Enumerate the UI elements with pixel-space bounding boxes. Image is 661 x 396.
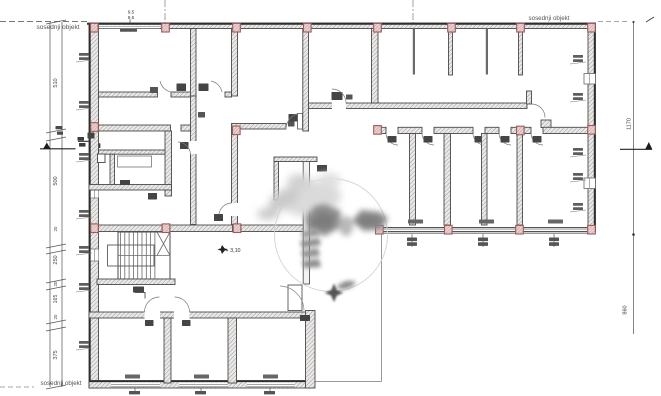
row2 wall (y125) left [99, 125, 171, 131]
door leaf corridor top [332, 92, 343, 100]
svg-text:9,5: 9,5 [128, 15, 135, 20]
section arrow right [620, 142, 652, 149]
dimension line left inner [61, 22, 63, 387]
partition x447 [444, 134, 451, 226]
svg-text:sosednji objekt: sosednji objekt [37, 24, 80, 31]
left wall tick text y287 [76, 283, 92, 292]
label corridor mid [346, 95, 353, 100]
corridor east wall upper [232, 29, 238, 97]
east wall lower-left wing lower [306, 311, 316, 389]
balcony door leaf [288, 285, 302, 311]
wall x375 upper [372, 29, 379, 104]
dashed line top-right [598, 21, 630, 23]
door arc bath [178, 142, 191, 154]
right-wing bottom facade wall [376, 228, 595, 234]
svg-text:860: 860 [623, 305, 629, 314]
svg-text:20: 20 [53, 281, 58, 286]
left-wing bottom wall [89, 381, 311, 389]
right wall tick text y208 [570, 203, 586, 212]
partition stub x450 [449, 29, 453, 76]
stair treads [121, 232, 155, 279]
dim text 40 [56, 126, 64, 135]
small label left y160 [120, 180, 130, 185]
facade label Np right 1 [408, 220, 423, 224]
right wall tick text y152 [570, 148, 586, 157]
svg-text:sosednji objekt: sosednji objekt [529, 15, 570, 22]
door arc room1 [160, 81, 171, 92]
svg-text:510: 510 [53, 78, 59, 87]
door leaf vestibule [199, 84, 209, 92]
level label +3,10 [217, 245, 240, 254]
svg-text:375: 375 [53, 350, 59, 359]
left wall tick text y215 [76, 210, 92, 219]
window bottom wall 1 [111, 383, 160, 387]
column R2-4 [517, 126, 525, 135]
partition x484 [482, 134, 488, 226]
partition stub x520 [519, 29, 523, 76]
section mark left [40, 137, 100, 149]
wc fixture [98, 154, 106, 163]
watermark blurred logo [257, 173, 388, 302]
column R2-1 [91, 123, 99, 132]
column R1-4 [304, 23, 312, 32]
left exterior wall [89, 23, 99, 388]
balcony door arc [280, 286, 304, 311]
window band top wall [99, 25, 160, 28]
svg-text:500: 500 [53, 176, 59, 185]
corridor top wall y103 [309, 103, 528, 109]
column R2-3 [374, 126, 382, 135]
right exterior wall [588, 23, 596, 232]
window bottom wall 2 [179, 383, 228, 387]
facade tick text below 3 [549, 234, 559, 247]
left wall tick text y250 [76, 246, 92, 255]
column R3-2 [162, 224, 170, 233]
window right wall 1 [584, 74, 596, 85]
dashed line bottom-left [0, 386, 34, 388]
left wall tick text y160 [76, 153, 92, 162]
door arc y312 b [175, 297, 190, 312]
dimension line right [632, 21, 635, 334]
svg-text:+ 3,10: + 3,10 [225, 248, 240, 254]
svg-text:9,5: 9,5 [128, 10, 135, 15]
column R3-5 [445, 225, 453, 234]
top wall dark face line [87, 23, 596, 25]
left wall dark face line [89, 23, 91, 388]
door label corridor y112 [198, 112, 205, 118]
stair door mark [135, 293, 145, 299]
east wall lower-left wing upper [303, 162, 309, 285]
duct wall x276 [274, 162, 279, 201]
partition x232 lower [228, 318, 237, 383]
bath divider wall y150 [99, 150, 166, 154]
door arc vestibule [211, 81, 222, 92]
window label Np=1.00 top [120, 29, 137, 32]
right-wing corridor south wall [381, 127, 589, 133]
row3 wall seg2 [170, 225, 233, 232]
row3 wall seg1 [99, 225, 163, 232]
stair landing rect [108, 245, 155, 266]
left wall tick text y345 [76, 341, 92, 350]
door arc corridor east [219, 203, 232, 214]
partition stub x414 [413, 29, 415, 75]
stair outer box [118, 232, 170, 279]
stair mid line [118, 255, 170, 257]
column R2-2 [233, 126, 241, 135]
partition stub x487 [486, 29, 488, 75]
bath east wall [165, 131, 172, 196]
column R3-3 [233, 224, 241, 233]
right wall tick text y98 [570, 93, 586, 102]
facade tick below bottom 3 [264, 388, 275, 394]
bathtub [118, 156, 152, 167]
right wall tick text y60 [570, 55, 586, 64]
door text room y196 [148, 193, 157, 200]
corridor west wall upper [191, 29, 197, 97]
column R1-8 [588, 23, 596, 32]
bath divider vert [110, 154, 115, 189]
duct wall y157 [274, 157, 317, 162]
stair label [133, 287, 144, 293]
terrace outline [306, 227, 382, 382]
door label room1 a [150, 87, 158, 93]
column R3-4 [376, 225, 384, 234]
facade label Np bottom 2 [194, 375, 209, 379]
column R1-6 [448, 23, 456, 32]
stair diagonal [157, 232, 170, 256]
door gap corridor top [332, 103, 346, 110]
column R1-1 [91, 23, 99, 32]
right wall tick text y178 [570, 173, 586, 182]
door arc y312 a [145, 297, 160, 312]
right wall dark face line [594, 23, 596, 232]
column R1-2 [162, 23, 170, 32]
row2 wall seg to corridor [181, 125, 191, 131]
door leaf bath [180, 142, 189, 149]
dimension ticks left [46, 20, 66, 389]
svg-text:20: 20 [53, 226, 58, 231]
wall room1 bottom (y92-97) seg A [99, 92, 158, 97]
column R3-6 [516, 225, 524, 234]
facade tick text below 1 [407, 234, 417, 247]
column R1-5 [374, 23, 382, 32]
wall y185 [89, 185, 172, 191]
left wall tick text y105 [76, 101, 92, 110]
left wall tick text y58 [76, 53, 92, 62]
balcony door text [300, 315, 310, 321]
stairwell south wall [97, 279, 175, 285]
column R2-5 [588, 126, 596, 135]
wall vestibule stub [225, 92, 232, 97]
wall y312 [89, 312, 311, 318]
door arc corridor top [332, 89, 346, 103]
tick text left wall y133 [88, 133, 95, 139]
partition x412 [410, 134, 416, 226]
facade tick text below 2 [478, 234, 488, 247]
door text duct [317, 165, 327, 172]
svg-text:250: 250 [53, 255, 59, 264]
dashed boundary line top-left [0, 21, 88, 23]
facade label Np right 2 [479, 220, 494, 224]
column R3-1 [91, 224, 99, 233]
hall east wall x303 [303, 29, 309, 132]
svg-text:sosednji objekt: sosednji objekt [41, 380, 82, 387]
door label hall y112 [288, 122, 295, 127]
corridor end door arc [532, 104, 546, 118]
right-wing room doors [386, 134, 543, 146]
svg-text:20: 20 [53, 314, 58, 319]
dash-dot grid line x=165 [164, 0, 166, 23]
window left wall 2 [91, 249, 99, 261]
door text y306 b [182, 320, 191, 326]
svg-text:1170: 1170 [627, 118, 633, 130]
door jamb hall [298, 114, 303, 130]
corridor end stub [541, 120, 551, 128]
column R3-7 [588, 225, 596, 234]
column R1-7 [517, 23, 525, 32]
dash-dot grid line x=413 [412, 0, 414, 23]
row3 wall seg3 [241, 225, 306, 232]
partition x167 lower [164, 318, 171, 383]
column R1-3 [233, 23, 241, 32]
facade tick below bottom 2 [195, 388, 206, 394]
door gap corridor east [231, 203, 238, 216]
facade label Np right 3 [548, 220, 563, 224]
facade tick below bottom 1 [129, 388, 140, 394]
door gap y312 b [174, 312, 190, 319]
door gap y312 a [145, 312, 161, 319]
door leaf corridor east [214, 214, 223, 221]
corridor east wall lower [232, 129, 238, 225]
door leaf room1 [177, 84, 187, 92]
top exterior wall [89, 23, 595, 29]
hall bottom wall y124 [232, 124, 287, 130]
wall room1 bottom seg B [171, 92, 196, 97]
dimension line left outer [49, 22, 51, 387]
door leaf hall [289, 114, 298, 122]
facade label Np bottom 3 [263, 375, 278, 379]
window right wall 2 [584, 178, 596, 189]
corridor end wall x527 [527, 91, 532, 104]
door gap corridor west [190, 141, 197, 154]
svg-text:165: 165 [53, 295, 59, 304]
top tick text 9,5/9,5 [128, 10, 135, 29]
corridor west wall lower [191, 96, 197, 225]
door text y306 [145, 320, 154, 326]
facade label Np bottom 1 [125, 375, 140, 379]
window left wall 1 [91, 186, 99, 198]
tick top-right corner [646, 17, 654, 22]
window bottom wall 3 [247, 383, 295, 387]
partition x520b [517, 134, 523, 226]
bottom wall dark face [89, 380, 311, 382]
door arc hall [286, 114, 297, 129]
